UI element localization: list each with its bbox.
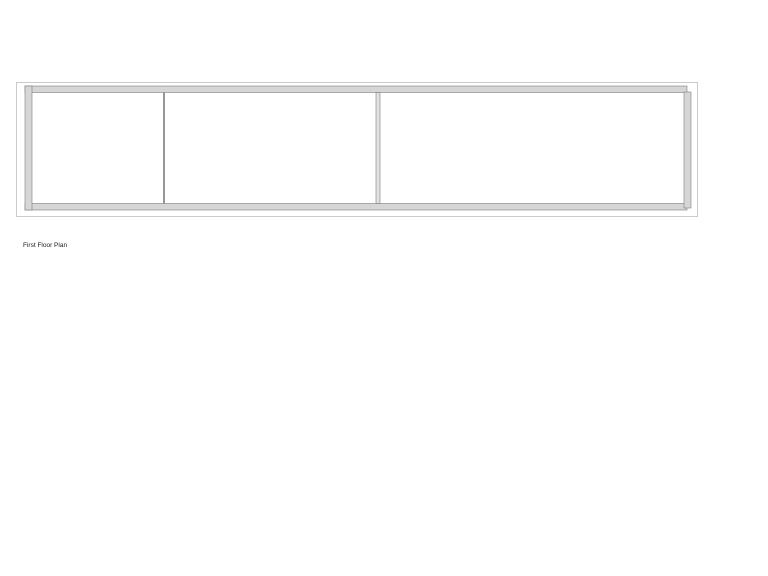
svg-text:First Floor Plan: First Floor Plan [23,242,67,249]
interior wall right of void / bedroom2 [376,93,380,204]
interior wall left of void [163,93,165,204]
bottom wall [25,204,687,211]
right wall [684,92,691,208]
top wall [25,86,687,93]
left wall [25,86,32,210]
outer roof overhang line [17,83,698,217]
